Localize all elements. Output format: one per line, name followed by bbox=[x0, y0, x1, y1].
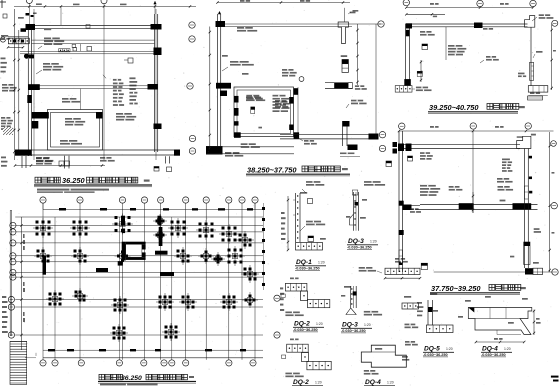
plan5 interior vline bbox=[472, 131, 474, 213]
misc left edge marks mid bbox=[1, 58, 7, 73]
plan3 axis bubbles top bbox=[403, 0, 536, 7]
svg-text:DQ-4: DQ-4 bbox=[365, 379, 381, 386]
svg-text:1:20: 1:20 bbox=[370, 240, 377, 244]
plan3 interior vline bbox=[445, 27, 447, 60]
plan1 axis tick marks bbox=[26, 13, 37, 18]
plan1 label JZ3 inner bbox=[65, 118, 85, 126]
plan1 mid axis wall bbox=[28, 75, 155, 90]
detail DQ-4 dims bbox=[475, 310, 541, 344]
detail DQ-4 title bbox=[481, 346, 512, 357]
plan2 left wall bbox=[218, 14, 221, 150]
plan5 left small mark bbox=[421, 263, 427, 269]
plan5 top-right T bbox=[517, 134, 536, 149]
plan3 right wall bbox=[530, 27, 534, 85]
svg-text:-0.030~36.250: -0.030~36.250 bbox=[341, 329, 366, 333]
plan3 left small mark bbox=[417, 71, 422, 76]
bigplan bottom edge line bbox=[25, 357, 263, 359]
plan1 3cell bar bbox=[59, 44, 76, 52]
detail DQ-2a shape bbox=[281, 278, 330, 308]
svg-text:DQ-5: DQ-5 bbox=[424, 346, 440, 353]
plan3 right wall foot bbox=[528, 86, 548, 93]
svg-text:1:20: 1:20 bbox=[315, 381, 322, 385]
plan2 label inner bottom bbox=[246, 97, 290, 108]
svg-text:1:20: 1:20 bbox=[446, 347, 453, 351]
plan5 right wall foot bbox=[525, 268, 543, 274]
plan2 title bbox=[246, 166, 350, 176]
plan2 right boundary line bbox=[375, 24, 377, 139]
plan2 inner shaft bbox=[234, 87, 298, 137]
plan2 small squares bottom bbox=[386, 161, 392, 167]
plan3 label Y25 mid bbox=[533, 51, 543, 58]
plan5 axis bubbles top bbox=[399, 123, 557, 147]
plan1 label X25 upper bbox=[38, 25, 90, 50]
plan1 inner shaft walls bbox=[48, 110, 103, 151]
plan1 right wall bbox=[155, 14, 158, 152]
detail DQ-1 left dim bbox=[281, 196, 289, 251]
misc labels above plan1 left bbox=[18, 17, 51, 30]
plan2 axis arrow bbox=[218, 11, 221, 14]
plan5 right dim vline bbox=[549, 132, 555, 272]
bigplan bottom axis bubbles bbox=[40, 360, 256, 366]
plan1 scattered square b bbox=[73, 47, 92, 52]
plan1 label right mid bbox=[60, 140, 82, 145]
plan1 top-left T extension bbox=[8, 37, 29, 44]
svg-text:-0.030~36.250: -0.030~36.250 bbox=[347, 246, 372, 250]
svg-text:DQ-2: DQ-2 bbox=[294, 321, 310, 328]
svg-text:-0.030~36.250: -0.030~36.250 bbox=[423, 353, 448, 357]
sheet edge marks top-left bbox=[0, 0, 6, 8]
plan1 label mid bbox=[36, 63, 63, 74]
plan1 left wall lower block bbox=[24, 54, 34, 104]
plan3 left wall foot bbox=[395, 86, 431, 93]
plan3 right dim vline bbox=[551, 23, 556, 90]
plan1 top axis bubbles bbox=[26, 0, 107, 4]
plan2 axis bubble top-right bbox=[378, 21, 384, 27]
plan2 label top right bbox=[237, 27, 257, 32]
svg-text:-0.030~36.250: -0.030~36.250 bbox=[293, 328, 318, 332]
plan3 top wall bbox=[406, 23, 528, 29]
detail DQ-2b title bbox=[292, 379, 323, 386]
plan2 T top label bbox=[348, 10, 358, 14]
plan3 label Y25 right bbox=[480, 56, 499, 63]
plan2 mid column bbox=[341, 55, 349, 72]
bigplan horizontal grid lines bbox=[15, 217, 263, 335]
plan1 bottom-right end bbox=[166, 150, 181, 164]
plan1 right wall blocks bbox=[148, 24, 162, 129]
bigplan vertical grid lines bbox=[43, 203, 255, 360]
detail DQ-1 vertical wall bbox=[293, 193, 300, 242]
detail DQ-3a title bbox=[347, 238, 378, 249]
svg-text:DQ-4: DQ-4 bbox=[482, 346, 498, 353]
detail DQ-1 top mark bbox=[300, 192, 313, 204]
detail DQ-5 title bbox=[423, 346, 454, 357]
bigplan right dashed studs bbox=[262, 203, 265, 290]
plan3 dim right side bbox=[420, 60, 422, 82]
svg-text:DQ-3: DQ-3 bbox=[348, 238, 364, 245]
bigplan shear wall bars bbox=[43, 216, 175, 276]
bigplan left vertical dim line bbox=[20, 217, 25, 350]
plan1 left axis bubble bbox=[0, 37, 5, 42]
plan3 label right TQ bbox=[478, 28, 493, 54]
plan2 text block right bbox=[273, 95, 290, 112]
plan1 small square pair a bbox=[59, 161, 70, 166]
plan1 title text bbox=[34, 176, 152, 193]
plan2 bottom-left corner bbox=[206, 146, 294, 155]
detail DQ-1 title bbox=[295, 259, 326, 270]
misc left edge marks low bbox=[1, 157, 7, 167]
detail DQ-6 label bbox=[364, 370, 379, 375]
plan2 left wall blocks bbox=[216, 21, 232, 96]
plan1 tall text column b bbox=[129, 77, 137, 104]
plan5 label Y25 wall bbox=[510, 228, 541, 264]
plan5 bottom wall bbox=[420, 203, 538, 209]
plan2 vert dim line bbox=[356, 24, 358, 85]
plan1 bottom dim line bbox=[14, 164, 105, 166]
plan2 label Y25 top bbox=[346, 100, 367, 108]
plan2 mid wall segment bbox=[325, 83, 367, 90]
plan1 top dimension line bbox=[14, 3, 196, 160]
plan3 text block bbox=[448, 45, 466, 55]
detail DQ-3b shape bbox=[341, 286, 357, 315]
plan1 top-left corner block bbox=[21, 24, 36, 32]
plan1 axis bubbles right bbox=[187, 22, 196, 154]
bigplan title bbox=[98, 374, 196, 385]
plan5 top wall bbox=[403, 145, 521, 149]
plan5 left stub wall bbox=[399, 205, 420, 266]
bigplan elevator core bbox=[118, 229, 146, 266]
plan5 top dimension bbox=[398, 126, 554, 132]
plan5 axis bubble foot bbox=[552, 269, 558, 275]
svg-text:-0.030~36.250: -0.030~36.250 bbox=[481, 353, 506, 357]
plan1 label JZ1 bbox=[62, 98, 80, 103]
misc label top-left corner bbox=[1, 14, 10, 40]
bigplan left axis bubbles bbox=[8, 222, 16, 338]
plan1 tall text column a bbox=[113, 79, 124, 106]
detail DQ-3b title bbox=[341, 322, 372, 333]
detail DQ-5 left labels bbox=[417, 302, 423, 316]
plan2 small circle D1 bbox=[299, 77, 304, 82]
plan1 mid beam lines bbox=[20, 51, 158, 54]
plan1 bottom labels bbox=[36, 157, 115, 165]
plan1 dim text left inner bbox=[0, 0, 1, 1]
svg-text:36.250: 36.250 bbox=[62, 176, 85, 185]
plan2 shaft left wall blocks bbox=[234, 96, 241, 138]
bigplan top dimension line bbox=[43, 203, 263, 211]
plan2 shaft corner leader bbox=[297, 137, 317, 145]
detail mid bar label2 bbox=[395, 258, 408, 263]
plan1 top wall bbox=[28, 26, 160, 29]
detail DQ-3b label bbox=[344, 286, 382, 316]
bigplan column clusters bbox=[33, 214, 259, 343]
detail DQ-4 shape bbox=[468, 308, 532, 335]
plan1 axis line verticals bbox=[34, 9, 156, 160]
detail DQ-5 shape bbox=[426, 293, 453, 333]
svg-text:DQ-2: DQ-2 bbox=[293, 379, 309, 386]
detail DQ-6 title bbox=[364, 379, 395, 386]
plan2 label X24 bbox=[222, 61, 254, 75]
plan5 right wall marks bbox=[524, 156, 533, 265]
svg-text:DQ-1: DQ-1 bbox=[296, 259, 312, 266]
detail DQ-3a ticks bbox=[346, 199, 367, 219]
plan1 br square pair bbox=[154, 167, 172, 172]
svg-text:37.750~39.250: 37.750~39.250 bbox=[431, 284, 481, 293]
svg-text:36.250: 36.250 bbox=[121, 375, 142, 382]
svg-text:1:20: 1:20 bbox=[504, 347, 511, 351]
plan2 bottom wall right bbox=[280, 134, 379, 140]
detail right label extra bbox=[405, 341, 418, 346]
detail DQ-1 right small sq bbox=[308, 236, 326, 242]
detail left label column bbox=[280, 287, 284, 311]
plan1 interior vline bbox=[79, 44, 81, 110]
plan3 foot dim bbox=[518, 73, 548, 96]
detail DQ-1 label bbox=[300, 221, 325, 231]
plan3 title bbox=[428, 103, 525, 114]
bigplan left legend table bbox=[2, 211, 27, 385]
detail DQ-4 small labels bbox=[458, 296, 528, 324]
plan1 hatch dim line bbox=[7, 46, 24, 48]
svg-text:-0.030~36.250: -0.030~36.250 bbox=[295, 267, 320, 271]
svg-text:DQ-3: DQ-3 bbox=[342, 322, 358, 329]
bigplan right axis bubbles bbox=[274, 295, 280, 338]
detail DQ-6 shape bbox=[361, 345, 409, 367]
plan1 bottom wall bbox=[15, 150, 180, 155]
plan2 dim under L column bbox=[340, 153, 360, 157]
plan3 left wall bbox=[404, 23, 412, 85]
plan5 right wall bbox=[524, 149, 528, 269]
plan1 left dimension line bbox=[13, 9, 20, 160]
plan5 interior text block bbox=[497, 159, 513, 183]
svg-text:1:20: 1:20 bbox=[316, 322, 323, 326]
plan5 axis bubble bottom right bbox=[551, 203, 557, 209]
plan5 title bbox=[430, 284, 526, 295]
plan1 upper beam lines bbox=[32, 40, 155, 44]
svg-text:38.250~37.750: 38.250~37.750 bbox=[247, 166, 297, 175]
plan2 bottom labels bbox=[302, 181, 385, 195]
svg-text:39.250~40.750: 39.250~40.750 bbox=[429, 103, 479, 112]
bigplan top axis bubbles bbox=[40, 197, 258, 203]
plan5 left wall blocks bbox=[393, 142, 413, 235]
detail DQ-1 base bar bbox=[296, 243, 323, 251]
plan2 label Y22 bottom bbox=[225, 152, 243, 157]
plan2 paren label stack bbox=[282, 69, 297, 77]
plan2 top dimension bbox=[216, 0, 350, 4]
detail mid segmented bar bbox=[359, 267, 422, 279]
plan2 shaft right wall blocks bbox=[289, 88, 299, 139]
sheet corner marks bbox=[551, 376, 559, 382]
plan5 bottom labels bbox=[420, 185, 513, 202]
plan3 label J2L bbox=[420, 31, 435, 50]
plan4 labels between bbox=[241, 95, 263, 148]
detail DQ-3a wall bbox=[350, 192, 359, 231]
detail DQ-2a title bbox=[293, 321, 324, 332]
detail small bar right bbox=[402, 296, 419, 309]
misc label Y25 plan1 bbox=[36, 158, 53, 163]
plan1 left wall bbox=[28, 25, 31, 156]
plan5 bottom long line bbox=[434, 271, 553, 273]
plan2 L column bbox=[343, 121, 358, 150]
plan5 labels left bbox=[420, 152, 433, 160]
plan5 top right corner mark bbox=[528, 96, 543, 100]
svg-text:1:20: 1:20 bbox=[364, 323, 371, 327]
plan1 inner shaft blocks bbox=[32, 112, 103, 129]
plan2 top horizontal line bbox=[221, 24, 381, 27]
svg-text:1:20: 1:20 bbox=[318, 261, 325, 265]
plan1 axis arrow top bbox=[153, 1, 156, 14]
plan1 left outside labels bbox=[1, 84, 17, 135]
plan3 right label leader bbox=[532, 14, 553, 21]
plan1 bottom-left T foot bbox=[15, 150, 69, 169]
plan3 axis bubble far right bbox=[552, 20, 558, 26]
plan1 label right of shaft bbox=[116, 113, 136, 121]
plan5 left wall bbox=[399, 131, 403, 272]
plan2 T column top bbox=[338, 8, 355, 44]
plan2 axis bubbles right bbox=[379, 132, 385, 152]
detail DQ-2b shape bbox=[282, 339, 332, 370]
plan3 right T column bbox=[525, 16, 535, 28]
plan3 top dimension bbox=[405, 3, 534, 17]
svg-text:1:20: 1:20 bbox=[387, 381, 394, 385]
detail small bar label bbox=[405, 324, 419, 329]
bigplan bottom dimension line bbox=[36, 349, 263, 356]
plan2 left dim vline bbox=[209, 27, 211, 151]
detail DQ-2a label bbox=[285, 312, 303, 317]
plan1 scattered square c bbox=[124, 58, 133, 63]
detail DQ-2b label bbox=[285, 373, 303, 378]
plan2 label left of shaft bbox=[222, 55, 228, 57]
plan5 label stub bbox=[410, 208, 421, 213]
